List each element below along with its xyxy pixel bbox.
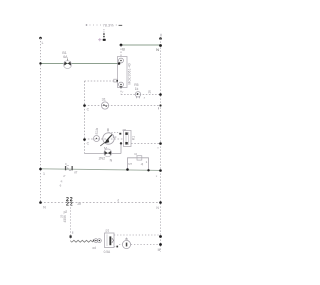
junction dot mid-rail/139.5 <box>83 138 86 141</box>
wire right vertical <box>160 39 162 253</box>
wire top horizontal L to U1 <box>41 63 118 65</box>
svg-text:L: L <box>42 41 44 45</box>
junction dot K1 bottom-left <box>120 142 122 144</box>
wire cap down vertical <box>70 204 72 241</box>
svg-text:22: 22 <box>66 202 74 208</box>
triac Q1 <box>64 59 72 69</box>
wire main mid row <box>41 169 161 171</box>
power supply PS1 <box>105 233 115 248</box>
svg-text:25: 25 <box>60 214 64 218</box>
junction dot right wire/143.5 <box>159 142 162 145</box>
diode branch <box>128 158 149 171</box>
svg-text:M: M <box>158 248 161 252</box>
wire PS1 bottom to fan <box>114 245 122 247</box>
Q2 labels <box>99 157 113 163</box>
relay K1 <box>119 131 131 147</box>
svg-text:N?: N? <box>128 162 132 166</box>
node top-right terminal <box>159 34 162 40</box>
svg-text:p2: p2 <box>64 210 68 214</box>
junction dot right wire/236.5 <box>159 235 162 238</box>
svg-text:N: N <box>156 48 159 52</box>
junction dot right wire/94.5 <box>159 93 162 96</box>
junction dot right wire/170.5 <box>159 169 162 172</box>
polarity mark <box>70 235 72 237</box>
svg-text:2n: 2n <box>77 202 81 206</box>
D1 labels <box>128 152 147 166</box>
svg-text:nf: nf <box>74 171 77 175</box>
svg-text:d: d <box>117 198 119 202</box>
wire U1 bottom to R5 row <box>121 88 161 95</box>
switch S1 <box>101 102 108 109</box>
svg-text:p1: p1 <box>106 229 110 233</box>
fan M2 <box>122 238 130 249</box>
junction dot left/169 <box>39 168 42 171</box>
wire bottom row <box>41 202 161 204</box>
junction dot at 40.5,63.5 <box>39 62 41 64</box>
junction dot right wire/105.5 <box>159 104 161 106</box>
junction dot right wire/202.5 <box>159 201 162 204</box>
motor M1 <box>100 128 114 146</box>
svg-text:d|: d| <box>141 162 144 166</box>
Q1 value text <box>62 51 68 59</box>
wire M1 row <box>85 138 124 140</box>
svg-text:S1b: S1b <box>95 128 99 135</box>
SSR U1 box <box>114 57 127 88</box>
svg-text:K1: K1 <box>132 136 136 140</box>
svg-text:1 d: 1 d <box>112 135 116 139</box>
twisted wire end mark <box>93 240 95 242</box>
svg-text:6A: 6A <box>63 55 68 59</box>
diode D1 box <box>137 156 142 160</box>
resistor R5 <box>135 92 140 99</box>
connector X1 <box>94 239 101 243</box>
junction dot mid-rail/105.5 <box>83 104 86 107</box>
wire top-right horizontal <box>121 44 161 46</box>
top annotation dash-dot line <box>86 24 123 26</box>
tick below right-rail node 105.5 <box>158 107 160 109</box>
wire under-loop <box>85 144 122 154</box>
svg-text:1k: 1k <box>148 90 152 94</box>
wire U1 top pin vertical <box>120 46 122 57</box>
svg-text:MOC3061-40: MOC3061-40 <box>127 63 131 84</box>
buzzer B1 <box>94 136 100 142</box>
wire fan to right rail <box>131 244 161 246</box>
svg-text:31: 31 <box>102 98 106 102</box>
junction dots branch <box>126 168 129 171</box>
svg-text:78.3%: 78.3% <box>103 22 115 27</box>
svg-text:F: F <box>65 162 67 166</box>
wire M1 top to K1 pin <box>109 132 120 134</box>
svg-text:C|: C| <box>134 152 137 156</box>
junction dot right wire/45 <box>159 44 162 47</box>
wire mid vertical rail <box>84 81 86 154</box>
twisted wire <box>71 240 94 242</box>
svg-text:2N2: 2N2 <box>99 157 105 161</box>
svg-text:od: od <box>92 246 96 250</box>
wire PS1 top to right rail <box>114 234 161 236</box>
capacitor C1 <box>66 197 74 208</box>
svg-text:0.5A: 0.5A <box>104 250 111 254</box>
junction dot U1 top <box>120 44 123 47</box>
wire K1 right to right rail <box>131 143 161 145</box>
svg-text:1k: 1k <box>135 87 139 91</box>
R5 labels <box>134 83 138 91</box>
svg-text:A: A <box>67 166 69 170</box>
transistor Q2 <box>104 149 112 157</box>
svg-text:1: 1 <box>43 172 45 176</box>
tick right of C1 column <box>72 231 74 233</box>
svg-text:450V: 450V <box>63 214 67 223</box>
junction dot right wire/244.5 <box>159 243 162 246</box>
wire U1 left lower pin <box>85 80 114 82</box>
wire left vertical <box>40 38 42 203</box>
fuse F1 <box>65 166 73 171</box>
power flag J? <box>98 29 106 41</box>
svg-text:r: r <box>122 90 123 94</box>
wire S1 row <box>85 105 161 107</box>
node N (bottom-left terminal) <box>39 201 42 204</box>
node L (top-left terminal) <box>39 37 43 45</box>
